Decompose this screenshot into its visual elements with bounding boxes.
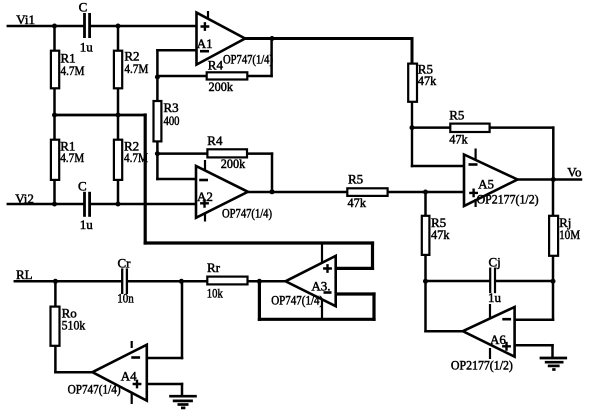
wire R5h2 right to Vo column [488, 126, 553, 129]
wire junction down to R5v2 top [424, 192, 427, 216]
wire R4b right to A2 feedback corner [247, 152, 272, 155]
op-amp A3 [271, 243, 336, 319]
wire Cj row right segment [496, 280, 553, 283]
wire Vi1 junction down to R1 top [53, 26, 56, 51]
svg-text:R4: R4 [207, 133, 223, 148]
capacitor C lower (Vi2) [83, 192, 86, 217]
wire A5 output to Vo [518, 178, 582, 181]
node Cr-Rr junction [179, 279, 184, 284]
ground symbol at A6 [540, 358, 568, 370]
svg-text:R4: R4 [208, 57, 224, 72]
svg-text:47k: 47k [449, 131, 468, 146]
op-amp A1 [197, 11, 274, 67]
resistor R1 upper [51, 51, 59, 89]
node right rail junction [410, 125, 415, 130]
svg-text:Cj: Cj [489, 255, 501, 270]
svg-text:200k: 200k [209, 79, 234, 94]
wire Cj row junction down to A6 output row [424, 281, 427, 331]
wire ground stem A4 [181, 384, 184, 395]
op-amp A4 [68, 341, 147, 404]
node Vi1-R1 junction [52, 24, 57, 29]
wire Vi2 input row left of C [8, 203, 84, 206]
wire A3 feedback right vertical [372, 294, 375, 319]
svg-text:47k: 47k [418, 73, 437, 88]
wire Cj row junction down to A6 inverting row [552, 281, 555, 320]
resistor R5 vertical mid right [422, 216, 430, 255]
svg-text:C: C [79, 0, 88, 15]
svg-text:A4: A4 [121, 368, 137, 383]
svg-text:RL: RL [16, 267, 33, 282]
wire lower R1 bottom to Vi2 row [53, 180, 56, 204]
svg-text:OP747(1/4): OP747(1/4) [222, 206, 272, 220]
resistor Rj [549, 216, 558, 256]
wire A4 noninverting input horizontal [147, 383, 182, 386]
node Vi1-R2 junction [116, 24, 121, 29]
wire A6 output horizontal [426, 330, 463, 333]
wire node 153.6 to R4b left [157, 152, 207, 155]
wire long horizontal to A3 region [145, 241, 372, 244]
svg-text:4.7M: 4.7M [60, 150, 84, 165]
wire A6 noninverting input to ground [515, 344, 553, 347]
node Vo junction [551, 177, 556, 182]
svg-text:OP747(1/4): OP747(1/4) [271, 294, 323, 308]
op-amp A6 [451, 304, 515, 373]
svg-text:Vi1: Vi1 [16, 12, 35, 27]
wire long vertical from mid junction row [144, 115, 147, 243]
wire Cj row left segment [426, 280, 490, 283]
wire A3 inverting input horizontal [336, 292, 374, 295]
svg-text:4.7M: 4.7M [124, 61, 148, 76]
wire Vi1 row from C to A1 + input [91, 25, 197, 28]
wire A3 feedback bottom horizontal [259, 318, 374, 321]
svg-text:OP747(1/4): OP747(1/4) [68, 383, 121, 397]
wire Vo junction down to Rj top [552, 180, 555, 216]
resistor R2 lower [114, 140, 122, 180]
resistor R2 upper [114, 51, 122, 89]
svg-text:Vo: Vo [567, 165, 581, 180]
resistor Ro [51, 307, 60, 346]
wire A1 inverting column down to R3 top [156, 50, 159, 101]
svg-text:4.7M: 4.7M [61, 63, 85, 78]
wire A2 output to R5h1 left [248, 191, 347, 194]
wire Rj bottom to Cj row junction [552, 256, 555, 281]
wire ground stem A6 [551, 345, 554, 357]
op-amp A2 [196, 160, 272, 222]
wire R5h1 right to A5 noninverting input [388, 191, 464, 194]
wire R5v1 bottom down to A5 inverting corner [411, 101, 413, 166]
wire RL row from Cr to Rr [128, 280, 206, 283]
node A1 output junction [270, 36, 275, 41]
resistor R3 [154, 101, 162, 141]
node mid row R2 junction [116, 113, 121, 118]
svg-text:1u: 1u [80, 217, 94, 232]
node Cj right junction [551, 279, 556, 284]
wire Vi2 row from C to A2 + input [91, 203, 196, 206]
wire feedback corner up to A1 output [270, 39, 273, 77]
svg-text:400: 400 [164, 113, 180, 128]
capacitor C upper (Vi1) [83, 13, 86, 38]
node Vi2-R1 junction [52, 202, 57, 207]
svg-text:Vi2: Vi2 [15, 191, 34, 206]
svg-text:Rr: Rr [207, 260, 221, 275]
wire A6 inverting input horizontal [515, 318, 553, 321]
svg-text:10M: 10M [559, 227, 580, 242]
svg-text:R5: R5 [348, 171, 363, 186]
wire A3 output junction down [258, 281, 261, 319]
resistor Rr [207, 277, 247, 285]
wire A2 inverting input horizontal [157, 178, 196, 181]
svg-text:47k: 47k [348, 195, 367, 210]
svg-text:47k: 47k [431, 227, 450, 242]
wire node 127.6 to R5h2 left [412, 126, 449, 129]
node A1 inverting R4 tap [155, 75, 160, 80]
svg-text:4.7M: 4.7M [124, 150, 148, 165]
svg-text:A3.: A3. [311, 278, 330, 293]
svg-text:A1: A1 [197, 36, 213, 51]
wire R4 right to feedback corner [247, 75, 271, 78]
svg-text:A5: A5 [478, 177, 494, 192]
wire RL row left of Cr [15, 280, 121, 283]
wire R2 bottom to lower R2 top (through mid junction) [117, 88, 120, 139]
wire RL junction down to Ro top [54, 281, 57, 306]
svg-text:R5: R5 [449, 107, 464, 122]
op-amp A5 [464, 149, 539, 208]
svg-text:200k: 200k [221, 156, 246, 171]
wire Vi1 input row left of C [8, 25, 84, 28]
wire A1 inverting input horizontal [157, 49, 196, 52]
node RL-Ro junction [53, 279, 58, 284]
node Cj left junction [423, 279, 428, 284]
wire right rail down to R5 top [411, 39, 414, 65]
svg-text:A6: A6 [490, 332, 506, 347]
wire Rr right to A3 output [246, 280, 285, 283]
wire Vo column down to Vo junction [552, 128, 555, 180]
capacitor Cr [121, 268, 123, 294]
resistor R5 horizontal A2 out [347, 188, 387, 196]
wire A3 noninverting input horizontal [336, 267, 373, 270]
svg-text:10n: 10n [117, 291, 134, 306]
wire to A5 inverting input [412, 165, 464, 168]
wire A1 output rail to right [245, 37, 412, 40]
wire lower R2 bottom to Vi2 row [117, 180, 120, 204]
svg-text:510k: 510k [62, 318, 86, 333]
wire mid junction row R1 to R2 to corner [55, 114, 146, 117]
svg-text:A2: A2 [197, 189, 213, 204]
wire R1 bottom to lower R1 top (through mid junction) [53, 88, 56, 139]
node A2 output junction [270, 189, 275, 194]
wire A2 feedback corner down to A2 output [271, 154, 274, 192]
resistor R1 lower [51, 140, 59, 180]
ground symbol at A4 [169, 396, 197, 408]
wire A4 output horizontal [55, 371, 92, 374]
node Vi2-R2 junction [116, 202, 121, 207]
svg-text:Cr: Cr [118, 256, 132, 271]
wire Ro bottom to A4 output corner [54, 346, 57, 372]
resistor R5 horizontal feedback A5 [450, 124, 489, 132]
svg-text:OP2177(1/2): OP2177(1/2) [477, 193, 539, 207]
svg-text:OP2177(1/2): OP2177(1/2) [451, 359, 513, 373]
svg-text:1u: 1u [488, 290, 502, 305]
wire Vi1 junction down to R2 top [117, 26, 120, 51]
node R3 bottom R4b tap [155, 151, 160, 156]
node mid row R1 junction [52, 113, 57, 118]
wire R3 bottom to A2 inverting corner [156, 141, 159, 179]
wire R5v2 bottom to Cj row junction [424, 255, 427, 281]
capacitor Cj [489, 268, 491, 294]
node A5 noninverting junction [423, 190, 428, 195]
resistor R4 feedback A1 [207, 72, 248, 79]
svg-text:10k: 10k [207, 285, 223, 300]
wire A4 inverting column up to Cr-Rr junction [181, 281, 184, 358]
wire down to A3 noninverting row [371, 243, 374, 268]
svg-text:1u: 1u [80, 39, 94, 54]
svg-text:OP747(1/4): OP747(1/4) [223, 53, 273, 67]
svg-text:C: C [78, 179, 87, 194]
wire A4 inverting input horizontal [147, 357, 182, 360]
resistor R5 vertical top right [408, 64, 417, 102]
resistor R4 feedback A2 [207, 149, 247, 157]
wire node at 77 to R4 left [157, 75, 206, 78]
node Rr-A3 junction [257, 279, 262, 284]
